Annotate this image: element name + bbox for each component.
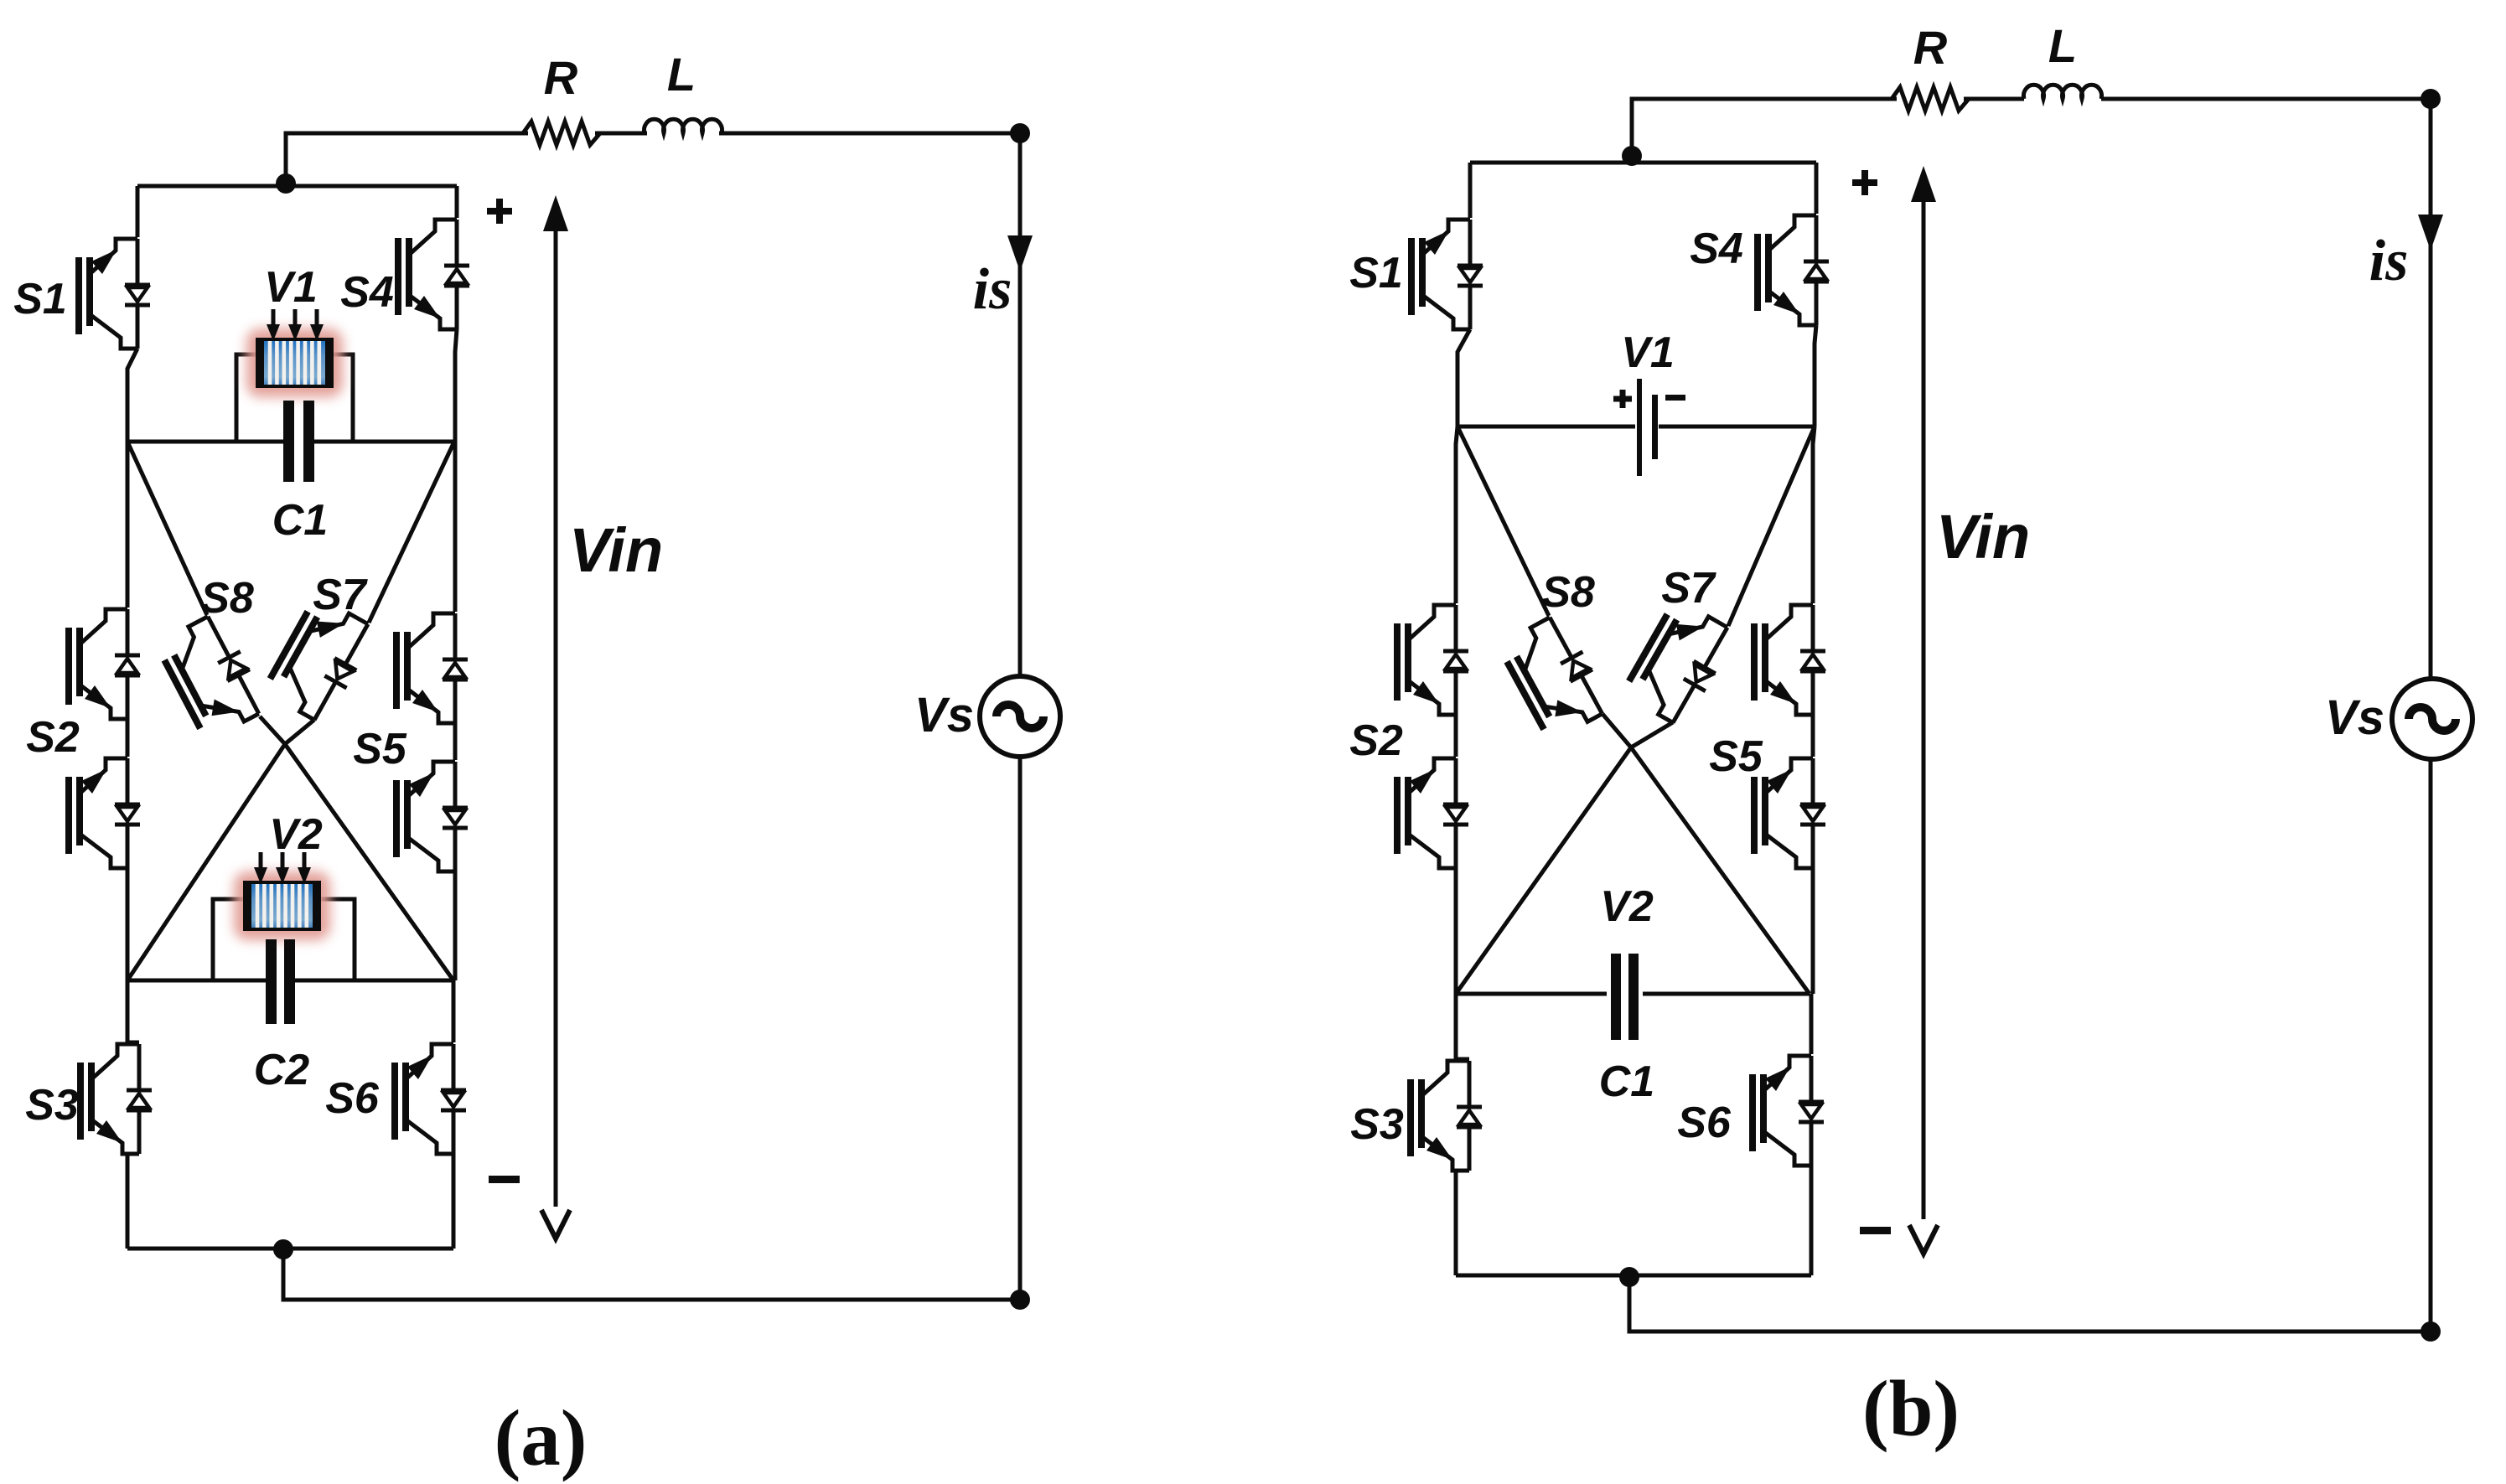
svg-text:Vs: Vs (914, 688, 974, 742)
svg-text:S1: S1 (13, 275, 67, 323)
svg-text:Vin: Vin (1936, 502, 2030, 571)
svg-text:C1: C1 (272, 496, 328, 545)
svg-text:(b): (b) (1862, 1364, 1960, 1453)
svg-text:S6: S6 (325, 1074, 380, 1123)
svg-text:is: is (973, 257, 1012, 322)
svg-text:S8: S8 (200, 574, 254, 623)
svg-text:S5: S5 (1709, 732, 1763, 781)
svg-text:L: L (2048, 19, 2077, 72)
svg-text:S1: S1 (1349, 249, 1403, 297)
svg-text:R: R (1913, 21, 1948, 74)
svg-text:S2: S2 (26, 713, 80, 762)
svg-text:R: R (544, 51, 578, 104)
svg-text:S5: S5 (353, 725, 407, 773)
svg-text:S6: S6 (1677, 1099, 1732, 1147)
svg-text:L: L (667, 48, 696, 101)
svg-text:C2: C2 (254, 1046, 310, 1094)
svg-text:S7: S7 (1661, 564, 1716, 613)
svg-text:Vs: Vs (2325, 690, 2384, 745)
svg-text:(a): (a) (494, 1394, 588, 1482)
svg-text:S8: S8 (1541, 568, 1595, 617)
svg-text:S7: S7 (313, 571, 368, 619)
svg-text:C1: C1 (1599, 1057, 1654, 1106)
svg-text:S3: S3 (1350, 1100, 1404, 1149)
svg-text:V1: V1 (264, 263, 318, 312)
svg-text:S2: S2 (1349, 716, 1403, 765)
svg-text:V2: V2 (1600, 882, 1654, 931)
svg-text:V1: V1 (1621, 328, 1675, 377)
svg-text:S3: S3 (25, 1081, 79, 1130)
svg-text:S4: S4 (1690, 225, 1743, 273)
svg-text:Vin: Vin (569, 515, 663, 585)
svg-text:V2: V2 (269, 810, 323, 859)
svg-text:is: is (2369, 229, 2409, 293)
svg-text:S4: S4 (340, 268, 394, 317)
